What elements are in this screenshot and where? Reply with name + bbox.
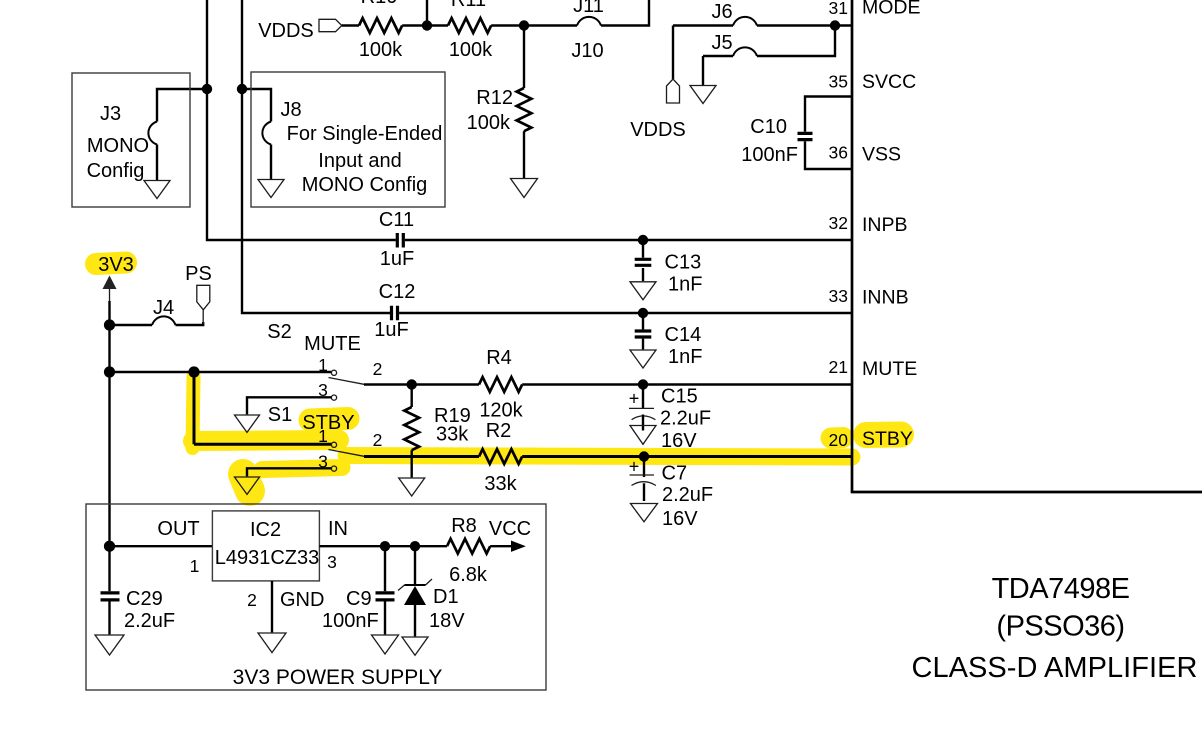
resistor R19	[404, 407, 419, 450]
wire: PS tag thin lead	[202, 309, 204, 324]
highlight: STBY switch label marker	[310, 419, 348, 421]
svg-text:100k: 100k	[359, 39, 403, 61]
wire: J3 tap from junction to jumper J3	[157, 89, 207, 122]
node: junction R11/R12	[519, 20, 529, 30]
svg-text:MODE: MODE	[862, 0, 921, 19]
ground under J5	[690, 86, 716, 104]
wire: C9 upper lead	[384, 546, 386, 591]
diode D1 zener bar tails	[398, 579, 432, 591]
wire: J5 left segment	[703, 55, 733, 57]
svg-text:C15: C15	[661, 386, 698, 408]
svg-text:C7: C7	[662, 463, 688, 485]
capacitor C11	[397, 233, 403, 248]
wire: J3 jumper lower lead	[156, 145, 158, 181]
svg-text:C11: C11	[379, 209, 414, 231]
svg-text:1: 1	[190, 556, 200, 576]
svg-text:100k: 100k	[467, 112, 511, 134]
highlight: 3V3 net label marker	[96, 263, 126, 265]
switch S2 contact 1 circle	[331, 370, 336, 375]
node: junction C9	[380, 541, 390, 551]
switch S1 contact 3 circle	[331, 466, 336, 471]
svg-text:+: +	[629, 457, 640, 477]
wire: STBY pole to R2 (highlighted)	[364, 455, 479, 458]
svg-text:C9: C9	[346, 588, 372, 610]
highlight: STBY switch contact-1 wire marker	[193, 440, 339, 441]
diode D1 zener cathode bar	[405, 584, 426, 586]
wire: R12 lower lead	[523, 131, 525, 178]
highlight: pin 20 number marker	[831, 427, 843, 449]
svg-text:J8: J8	[280, 99, 301, 121]
wire: C7 lower lead	[643, 483, 645, 501]
svg-text:VCC: VCC	[489, 518, 531, 540]
IC U1 bottom edge	[851, 491, 1202, 494]
jumper J4	[152, 316, 176, 325]
wire: C29 lower lead	[108, 602, 110, 635]
svg-text:33k: 33k	[436, 424, 469, 446]
wire: C15 upper lead	[642, 385, 644, 409]
svg-text:STBY: STBY	[302, 412, 354, 434]
wire: vertical feed from top at x=427	[426, 0, 428, 26]
wire: VDDS tag to R10	[342, 24, 359, 26]
wire: C7 upper lead	[643, 457, 645, 478]
wire: J11 to top-right corner	[601, 0, 649, 26]
wire: R11 to J11	[491, 24, 577, 26]
svg-text:20: 20	[829, 430, 849, 450]
wire: VDDS tag up-lead to J6	[672, 26, 674, 80]
switch S1 contact 1 circle	[331, 442, 336, 447]
IC U1 left edge (TDA7498E)	[851, 0, 854, 492]
jumper J6	[733, 17, 757, 26]
svg-text:GND: GND	[280, 589, 324, 611]
resistor R2	[479, 449, 522, 464]
svg-text:35: 35	[829, 72, 848, 92]
svg-text:32: 32	[829, 213, 848, 233]
node: junction on x=207 wire at J3 tap	[202, 84, 212, 94]
node: junction C14 on INNB row	[638, 308, 648, 318]
svg-text:R2: R2	[486, 420, 512, 442]
ground under J8	[258, 180, 284, 198]
svg-text:1: 1	[318, 355, 328, 375]
wire: J6 left segment	[673, 24, 733, 26]
capacitor C14	[635, 331, 652, 337]
wire: C14 upper lead	[642, 313, 644, 329]
svg-text:CLASS-D AMPLIFIER: CLASS-D AMPLIFIER	[911, 652, 1197, 684]
highlight: ground under STBY switch marker	[243, 474, 250, 491]
ground under J3	[144, 181, 170, 199]
node: junction MODE pin 31	[830, 20, 840, 30]
node: junction 3V3 rail / MUTE contact wire	[104, 366, 115, 377]
svg-text:100nF: 100nF	[741, 144, 798, 166]
highlight: STBY pin name marker	[866, 422, 901, 449]
switch S2 contact 3 circle	[331, 395, 336, 400]
svg-text:J11: J11	[573, 0, 604, 17]
ground under IC2 pin 2	[258, 633, 286, 653]
VDDS supply tag near J6	[667, 79, 680, 103]
wire: J4 left segment	[110, 324, 153, 326]
wire: R8 to VCC arrow	[490, 545, 512, 547]
node: junction on contact-1 wire feeding STBY switch	[188, 366, 199, 377]
wire: C9 lower lead	[384, 602, 386, 635]
ground under C9	[372, 635, 399, 654]
jumper J5	[733, 47, 757, 56]
svg-text:3: 3	[318, 380, 328, 400]
resistor R8	[447, 539, 490, 554]
svg-text:VSS: VSS	[862, 144, 901, 166]
svg-text:6.8k: 6.8k	[449, 564, 488, 586]
wire: C15 lower lead	[642, 415, 644, 431]
box: 3V3 power supply block	[86, 504, 546, 690]
node: junction 3V3 rail / J4	[104, 319, 115, 330]
svg-text:3V3: 3V3	[98, 254, 134, 276]
resistor R4	[479, 377, 522, 392]
ground under D1	[402, 637, 428, 655]
VDDS input tag (top-left)	[319, 19, 342, 31]
capacitor C7 top plate	[630, 474, 655, 476]
svg-text:J4: J4	[153, 297, 174, 319]
wire: R19 upper lead	[411, 385, 413, 408]
resistor R11	[448, 18, 491, 33]
node: junction OUT rail / C29	[104, 541, 115, 552]
svg-text:2.2uF: 2.2uF	[124, 610, 175, 632]
svg-text:+: +	[629, 389, 640, 409]
svg-text:R11: R11	[451, 0, 486, 11]
svg-text:1uF: 1uF	[374, 319, 408, 341]
wire: C13 lower lead	[642, 268, 644, 281]
svg-text:MONO: MONO	[87, 135, 149, 157]
svg-text:16V: 16V	[662, 508, 698, 530]
svg-text:S2: S2	[267, 321, 291, 343]
box around J3	[72, 73, 190, 207]
wire: vertical net into INPB row (x=207)	[207, 0, 396, 240]
wire: S1 contact-3 wire to ground	[247, 468, 331, 476]
capacitor C15 top plate	[629, 407, 654, 409]
net 3V3: label arrow	[103, 276, 117, 290]
wire: STBY switch contact-1 wire (highlighted)	[194, 443, 331, 446]
svg-text:VDDS: VDDS	[630, 119, 686, 141]
ground under S2 contact 3	[235, 415, 260, 432]
node: junction D1	[410, 541, 420, 551]
svg-text:L4931CZ33: L4931CZ33	[215, 547, 320, 569]
svg-text:PS: PS	[185, 263, 212, 285]
svg-text:(PSSO36): (PSSO36)	[996, 611, 1124, 643]
wire: R2 to STBY pin 20 (highlighted)	[522, 455, 852, 458]
svg-text:100nF: 100nF	[322, 610, 379, 632]
resistor R10	[359, 18, 402, 33]
svg-text:2.2uF: 2.2uF	[660, 408, 711, 430]
svg-text:R8: R8	[451, 515, 477, 537]
svg-text:MONO Config: MONO Config	[302, 174, 428, 196]
wire: junction down to R12	[523, 26, 525, 89]
svg-text:OUT: OUT	[157, 518, 199, 540]
svg-text:2: 2	[373, 359, 383, 379]
wire: C13 upper lead	[642, 241, 644, 258]
node: junction C15 on MUTE net	[638, 379, 648, 389]
wire: D1 lower lead	[414, 605, 416, 636]
jumper J11	[577, 17, 601, 26]
svg-text:C12: C12	[379, 281, 416, 303]
ground under R19	[399, 478, 425, 496]
svg-text:Config: Config	[87, 160, 145, 182]
svg-text:21: 21	[829, 357, 848, 377]
highlight: STBY switch contact-3 wire marker	[262, 468, 342, 470]
wire: J8 jumper lower lead	[270, 145, 272, 180]
svg-text:J5: J5	[711, 32, 732, 54]
capacitor C9	[376, 593, 395, 600]
ground under C29	[95, 635, 124, 655]
svg-text:R10: R10	[361, 0, 398, 8]
node: junction C7 on STBY net	[639, 451, 649, 461]
svg-text:STBY: STBY	[862, 428, 913, 450]
node: junction on x=242 wire at J8 tap	[237, 84, 247, 94]
wire: MUTE switch contact-1 wire	[110, 371, 332, 373]
wire: R19 lower lead crossing STBY net	[411, 450, 413, 477]
switch S1 blade	[329, 450, 367, 457]
wire: MUTE pole to R4	[364, 383, 479, 385]
wire: S2 contact-3 wire to ground	[247, 397, 331, 414]
wire: 3V3 rail down into power supply	[108, 301, 110, 546]
ground under C14	[630, 350, 656, 368]
svg-text:J10: J10	[571, 40, 603, 62]
wire: STBY feed vertical (highlighted)	[193, 372, 196, 444]
svg-text:2: 2	[373, 430, 383, 450]
diode D1 body	[404, 586, 426, 605]
svg-text:1uF: 1uF	[380, 248, 414, 270]
wire: IC2 GND lead	[271, 581, 273, 632]
wire: C29 upper lead	[108, 546, 110, 591]
wire: 3V3 arrow thin lead	[109, 289, 111, 303]
svg-text:C14: C14	[665, 324, 702, 346]
svg-text:36: 36	[829, 143, 848, 163]
svg-text:3: 3	[318, 452, 328, 472]
svg-text:C10: C10	[750, 116, 787, 138]
net VCC: arrow head	[511, 541, 526, 552]
ground under S1 contact 3	[235, 477, 260, 494]
highlight: STBY net wire marker	[346, 456, 852, 458]
svg-text:120k: 120k	[479, 400, 523, 422]
wire: SVCC pin 35 stub	[805, 97, 852, 132]
svg-text:INPB: INPB	[862, 214, 908, 236]
svg-text:16V: 16V	[661, 430, 697, 452]
svg-text:2: 2	[247, 590, 257, 610]
svg-text:J3: J3	[100, 103, 121, 125]
svg-text:3V3 POWER SUPPLY: 3V3 POWER SUPPLY	[233, 666, 443, 689]
svg-text:J6: J6	[711, 1, 732, 23]
capacitor C12	[392, 306, 398, 321]
svg-text:INNB: INNB	[862, 287, 909, 309]
wire: R10 to R11	[402, 24, 448, 26]
svg-text:Input and: Input and	[318, 150, 401, 172]
wire: J5 ground lead	[702, 56, 704, 85]
ground under C15	[630, 426, 656, 445]
svg-text:100k: 100k	[449, 39, 493, 61]
svg-text:C29: C29	[126, 588, 163, 610]
svg-text:C13: C13	[665, 252, 702, 274]
wire: C14 lower lead	[642, 339, 644, 350]
ground under C7	[631, 504, 658, 522]
ground under R12	[511, 179, 538, 198]
wire: C12 to INNB pin 33	[399, 312, 852, 314]
svg-text:IC2: IC2	[250, 519, 281, 541]
svg-text:VDDS: VDDS	[258, 20, 314, 42]
op-amp IC2 body (regulator L4931CZ33)	[212, 511, 319, 581]
wire: J5 right segment up to MODE junction	[757, 26, 835, 57]
wire: J4 right segment to PS tag	[176, 322, 204, 325]
svg-text:SVCC: SVCC	[862, 71, 916, 93]
resistor R12	[517, 88, 532, 131]
capacitor C7 curved plate	[632, 482, 656, 486]
PS input tag	[197, 285, 210, 310]
wire: R4 to MUTE pin 21	[522, 383, 852, 385]
svg-text:2.2uF: 2.2uF	[662, 484, 713, 506]
wire: D1 upper lead	[414, 546, 416, 585]
svg-text:1nF: 1nF	[668, 346, 702, 368]
wire: vertical net into INNB row (x=242)	[242, 0, 390, 313]
svg-text:3: 3	[327, 552, 337, 572]
jumper J8	[262, 122, 271, 145]
highlight: vertical wire 3V3 to STBY switch marker	[193, 376, 194, 448]
capacitor C13	[635, 259, 652, 265]
capacitor C10	[798, 133, 813, 139]
svg-text:TDA7498E: TDA7498E	[992, 573, 1130, 605]
wire: OUT rail to IC2	[110, 545, 213, 547]
box around J8	[251, 72, 445, 207]
svg-text:31: 31	[829, 0, 848, 18]
node: junction R10/R11 with top feed	[422, 20, 432, 30]
svg-text:1: 1	[318, 426, 328, 446]
node: junction R19 on MUTE net	[407, 379, 417, 389]
svg-text:S1: S1	[268, 404, 292, 426]
svg-text:33: 33	[829, 286, 848, 306]
switch S2 blade	[329, 378, 367, 385]
svg-text:18V: 18V	[429, 610, 465, 632]
wire: C10 to VSS pin 36 stub	[805, 141, 852, 169]
wire: C11 to INPB pin 32	[405, 239, 852, 241]
svg-text:33k: 33k	[484, 473, 517, 495]
svg-text:IN: IN	[328, 518, 348, 540]
jumper J3	[148, 122, 157, 145]
ground under C13	[630, 282, 656, 300]
capacitor C15 curved plate	[632, 416, 656, 420]
svg-text:1nF: 1nF	[668, 274, 702, 296]
svg-text:R4: R4	[486, 347, 512, 369]
svg-text:For Single-Ended: For Single-Ended	[287, 123, 443, 145]
wire: J8 tap from junction to jumper J8	[242, 89, 271, 122]
svg-text:R12: R12	[476, 87, 513, 109]
svg-text:MUTE: MUTE	[304, 333, 361, 355]
capacitor C29	[101, 593, 120, 600]
svg-text:MUTE: MUTE	[862, 358, 917, 380]
node: junction C13 on INPB row	[638, 235, 648, 245]
wire: J6 right segment to MODE pin	[757, 24, 852, 26]
svg-text:D1: D1	[433, 586, 459, 608]
wire: IN rail from IC2 to R8	[319, 545, 447, 547]
